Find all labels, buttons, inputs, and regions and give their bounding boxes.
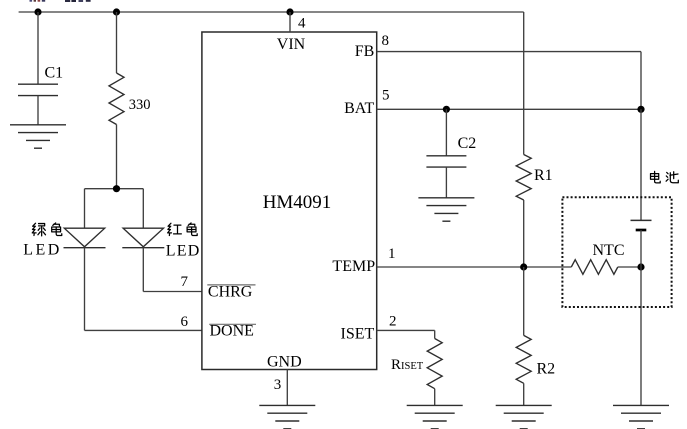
thermistor NTC xyxy=(571,260,618,275)
wire C1 to ground xyxy=(37,96,39,125)
wire BAT node down to battery xyxy=(640,109,642,220)
junction LED rail xyxy=(113,185,120,192)
svg-text:330: 330 xyxy=(129,97,151,113)
wire Riset to ground xyxy=(434,389,436,406)
svg-text:GND: GND xyxy=(267,354,302,371)
ground (IC GND) xyxy=(259,405,315,428)
svg-text:BAT: BAT xyxy=(344,100,374,117)
wire rail to C1 xyxy=(37,12,39,84)
junction FB-BAT-battery xyxy=(637,106,644,113)
svg-text:7: 7 xyxy=(181,274,189,290)
svg-text:C2: C2 xyxy=(458,135,477,152)
junction C1/rail xyxy=(34,8,41,15)
wire to DONE pin 6 xyxy=(85,329,202,331)
resistor Riset xyxy=(427,339,442,389)
wire LED anode rail xyxy=(85,188,144,190)
wire FB down to BAT xyxy=(640,52,642,110)
wire to CHRG pin 7 xyxy=(143,291,202,293)
battery pack dotted box xyxy=(562,197,671,307)
resistor R1 xyxy=(516,155,531,201)
svg-text:R2: R2 xyxy=(537,361,556,378)
wire R330 to LED rail xyxy=(116,125,118,189)
wire C2 to ground xyxy=(445,167,447,198)
svg-text:R1: R1 xyxy=(534,167,553,184)
wire rail to R330 xyxy=(116,12,118,73)
wire BAT net xyxy=(377,108,641,110)
pin CHRG name xyxy=(207,284,255,301)
ground (Riset) xyxy=(407,405,463,428)
svg-text:3: 3 xyxy=(274,377,282,393)
ground (battery) xyxy=(613,405,669,428)
wire R2 to ground xyxy=(523,383,525,405)
svg-text:6: 6 xyxy=(181,314,189,330)
svg-text:VIN: VIN xyxy=(277,36,306,53)
svg-text:CHRG: CHRG xyxy=(208,284,253,301)
label red LED (Chinese hongse) xyxy=(168,223,198,236)
wire GND pin 3 stub xyxy=(286,370,288,406)
wire rail down to R1 xyxy=(523,12,525,155)
svg-text:FB: FB xyxy=(355,43,375,60)
wire pin 4 stub xyxy=(289,12,291,32)
svg-text:4: 4 xyxy=(298,16,306,32)
capacitor C2 xyxy=(426,156,466,167)
resistor 330 xyxy=(109,73,124,125)
wire FB net xyxy=(377,51,641,53)
svg-text:1: 1 xyxy=(388,246,396,262)
wire NTC to battery minus xyxy=(618,266,641,268)
LED D2 red xyxy=(122,228,164,248)
svg-text:DONE: DONE xyxy=(210,323,254,340)
svg-text:5: 5 xyxy=(382,87,390,103)
wire TEMP net xyxy=(377,266,572,268)
wire green LED cathode down xyxy=(84,248,86,331)
junction NTC-battery xyxy=(637,263,644,270)
resistor R2 xyxy=(516,335,531,383)
svg-text:C1: C1 xyxy=(45,65,64,82)
op-amp U1 HM4091 body xyxy=(202,32,377,370)
pin DONE name xyxy=(209,323,256,340)
wire red LED cathode down xyxy=(142,248,144,292)
svg-text:LED: LED xyxy=(23,242,62,259)
ground (C2) xyxy=(418,198,474,221)
junction R1-R2-TEMP xyxy=(520,263,527,270)
svg-text:LED: LED xyxy=(166,242,201,259)
ground (R2) xyxy=(496,405,552,428)
battery BT1 xyxy=(631,220,652,230)
ground (C1) xyxy=(10,125,66,148)
wire ISET pin 2 xyxy=(377,329,435,331)
wire rail to red LED xyxy=(142,189,144,229)
svg-text:TEMP: TEMP xyxy=(332,258,375,275)
node VIN input (cut-off label fragments) xyxy=(30,0,91,2)
svg-text:NTC: NTC xyxy=(593,242,625,259)
svg-text:HM4091: HM4091 xyxy=(263,192,332,213)
svg-text:8: 8 xyxy=(382,33,390,49)
wire down to Riset xyxy=(434,330,436,338)
junction VIN-pin/rail xyxy=(286,8,293,15)
junction C2/BAT xyxy=(443,106,450,113)
wire BAT to C2 xyxy=(445,109,447,156)
label green LED (Chinese lvse) xyxy=(32,223,62,236)
label battery (Chinese dianchi) xyxy=(651,171,679,183)
wire top VIN rail xyxy=(19,11,524,13)
wire TEMP node down to R2 xyxy=(523,267,525,335)
LED D1 green xyxy=(64,228,106,248)
wire R1 to TEMP node xyxy=(523,200,525,267)
capacitor C1 xyxy=(18,84,58,95)
junction 330/rail xyxy=(113,8,120,15)
wire battery minus down xyxy=(640,230,642,405)
svg-text:ISET: ISET xyxy=(341,326,375,343)
wire rail to green LED xyxy=(84,189,86,229)
svg-text:2: 2 xyxy=(389,314,397,330)
